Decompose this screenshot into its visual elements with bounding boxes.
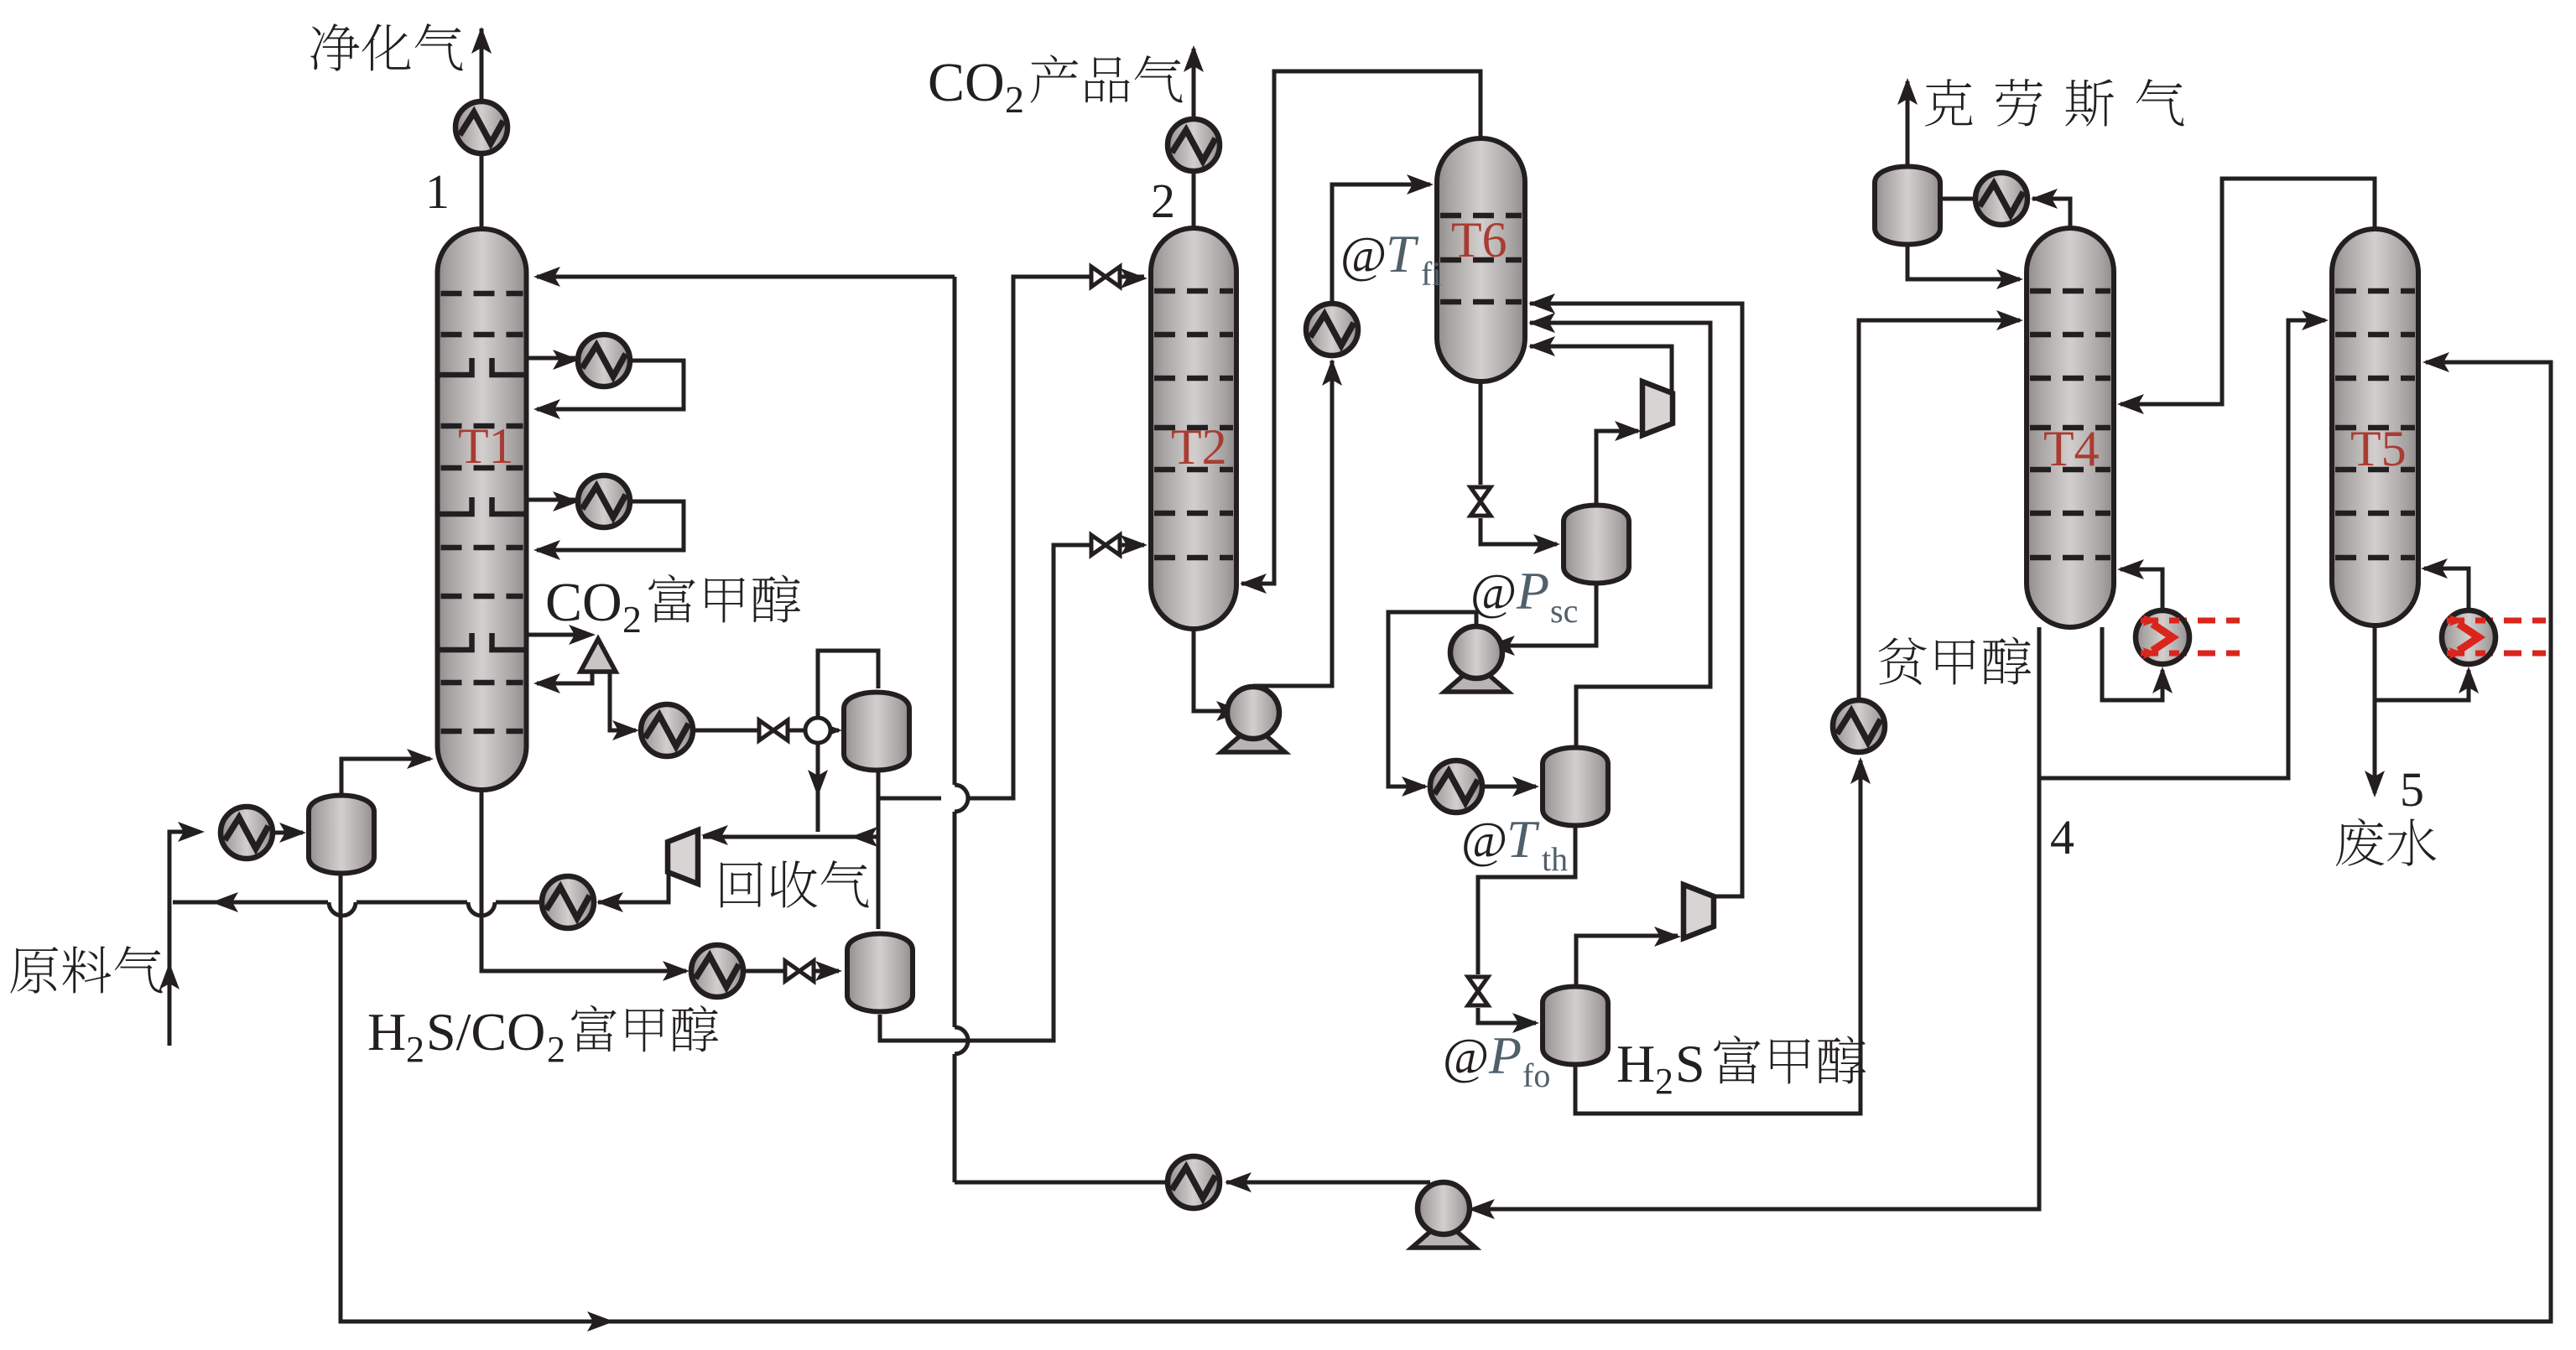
svg-text:2: 2 [1005,78,1024,121]
svg-text:@: @ [1340,227,1387,283]
svg-text:T: T [1507,809,1540,869]
svg-text:P: P [1488,1025,1522,1085]
svg-text:P: P [1516,561,1549,620]
svg-text:fi: fi [1421,255,1441,293]
svg-text:@: @ [1443,1029,1489,1084]
svg-text:th: th [1542,840,1568,878]
svg-text:H: H [1616,1034,1655,1093]
svg-text:S: S [1675,1034,1705,1093]
svg-text:CO: CO [545,572,622,633]
svg-text:2: 2 [406,1029,424,1070]
svg-text:S/CO: S/CO [426,1002,545,1062]
svg-text:T: T [1386,224,1419,283]
svg-text:sc: sc [1550,592,1578,630]
svg-text:T2: T2 [1171,419,1227,475]
svg-text:2: 2 [547,1029,565,1070]
svg-text:@: @ [1470,564,1517,620]
svg-text:T5: T5 [2350,421,2407,476]
svg-text:T4: T4 [2043,421,2100,476]
svg-text:@: @ [1461,813,1507,868]
svg-text:2: 2 [1655,1061,1673,1102]
svg-text:4: 4 [2050,810,2074,865]
svg-text:2: 2 [1151,174,1175,228]
svg-text:H: H [367,1002,406,1062]
svg-text:T6: T6 [1451,212,1507,267]
svg-text:1: 1 [425,164,450,219]
svg-text:5: 5 [2400,762,2424,817]
svg-text:2: 2 [622,598,642,641]
svg-text:T1: T1 [458,418,514,474]
svg-text:fo: fo [1522,1057,1550,1094]
svg-text:CO: CO [928,52,1005,113]
